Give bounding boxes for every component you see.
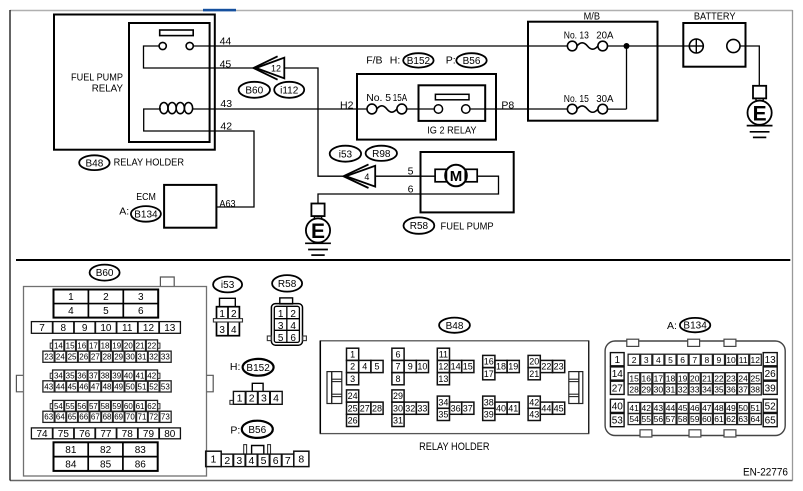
svg-text:39: 39 (765, 383, 777, 394)
svg-text:51: 51 (138, 382, 147, 391)
svg-text:A:: A: (667, 320, 677, 332)
svg-text:R58: R58 (410, 221, 429, 232)
svg-text:37: 37 (738, 384, 748, 394)
svg-text:28: 28 (103, 353, 112, 362)
svg-text:54: 54 (54, 402, 63, 411)
svg-text:44: 44 (56, 382, 65, 391)
svg-text:52: 52 (149, 382, 158, 391)
svg-text:58: 58 (678, 414, 688, 424)
svg-text:30: 30 (393, 403, 403, 413)
svg-text:26: 26 (348, 416, 358, 426)
svg-text:23: 23 (554, 362, 564, 372)
svg-text:14: 14 (612, 369, 624, 380)
svg-text:27: 27 (612, 383, 624, 394)
svg-text:65: 65 (765, 416, 777, 427)
svg-text:57: 57 (666, 414, 676, 424)
svg-text:4: 4 (362, 362, 367, 372)
svg-text:M/B: M/B (584, 10, 600, 22)
svg-text:38: 38 (484, 397, 494, 407)
svg-text:64: 64 (56, 413, 65, 422)
svg-text:59: 59 (690, 414, 700, 424)
svg-text:39: 39 (112, 371, 121, 380)
svg-text:85: 85 (100, 459, 112, 470)
svg-text:35: 35 (714, 384, 724, 394)
svg-text:4: 4 (249, 455, 255, 467)
svg-text:36: 36 (77, 371, 86, 380)
svg-text:53: 53 (612, 416, 624, 427)
svg-text:31: 31 (138, 353, 147, 362)
svg-text:40: 40 (496, 403, 506, 413)
svg-text:25: 25 (348, 403, 358, 413)
svg-text:4: 4 (231, 325, 237, 336)
svg-text:2: 2 (231, 309, 237, 320)
svg-text:11: 11 (439, 350, 448, 360)
svg-text:8: 8 (298, 454, 304, 466)
svg-text:15: 15 (463, 362, 473, 372)
svg-text:8: 8 (395, 374, 400, 384)
svg-text:4: 4 (364, 172, 369, 182)
svg-text:51: 51 (751, 403, 761, 413)
svg-text:E: E (753, 102, 767, 125)
svg-text:22: 22 (541, 362, 551, 372)
svg-text:M: M (450, 168, 463, 185)
svg-text:22: 22 (714, 373, 724, 383)
svg-text:45: 45 (220, 58, 232, 70)
svg-text:48: 48 (714, 403, 724, 413)
svg-text:43: 43 (654, 403, 664, 413)
svg-text:10: 10 (417, 362, 427, 372)
svg-text:47: 47 (91, 382, 100, 391)
svg-text:27: 27 (91, 353, 100, 362)
svg-text:49: 49 (114, 382, 123, 391)
svg-text:3: 3 (138, 292, 144, 303)
svg-text:3: 3 (236, 455, 242, 467)
svg-text:IG 2 RELAY: IG 2 RELAY (427, 124, 476, 136)
svg-text:21: 21 (136, 341, 145, 350)
svg-text:17: 17 (89, 341, 98, 350)
svg-text:2: 2 (290, 309, 296, 320)
svg-text:77: 77 (100, 429, 112, 440)
svg-text:45: 45 (554, 403, 564, 413)
svg-text:ECM: ECM (136, 191, 156, 203)
svg-text:70: 70 (126, 413, 135, 422)
svg-text:46: 46 (79, 382, 88, 391)
svg-text:15: 15 (629, 373, 639, 383)
svg-text:50: 50 (738, 403, 748, 413)
svg-text:13: 13 (438, 374, 448, 384)
svg-text:R98: R98 (372, 149, 391, 160)
svg-text:73: 73 (161, 413, 170, 422)
svg-text:68: 68 (103, 413, 112, 422)
svg-text:64: 64 (751, 414, 761, 424)
svg-text:B60: B60 (245, 85, 263, 96)
svg-text:63: 63 (44, 413, 53, 422)
svg-text:71: 71 (138, 413, 147, 422)
svg-text:45: 45 (678, 403, 688, 413)
svg-text:12: 12 (143, 323, 155, 334)
svg-text:EN-22776: EN-22776 (743, 466, 788, 478)
svg-text:9: 9 (82, 323, 88, 334)
svg-text:7: 7 (395, 362, 400, 372)
svg-text:62: 62 (726, 414, 736, 424)
svg-text:14: 14 (54, 341, 63, 350)
svg-text:37: 37 (89, 371, 98, 380)
svg-text:3: 3 (261, 393, 267, 405)
svg-text:No. 15: No. 15 (564, 93, 589, 105)
svg-text:41: 41 (136, 371, 145, 380)
svg-text:4: 4 (656, 355, 661, 365)
svg-text:37: 37 (463, 403, 473, 413)
svg-text:82: 82 (100, 445, 112, 456)
svg-text:B48: B48 (446, 321, 464, 332)
svg-text:17: 17 (654, 373, 664, 383)
svg-text:86: 86 (135, 459, 147, 470)
svg-text:6: 6 (138, 306, 144, 317)
svg-text:19: 19 (678, 373, 688, 383)
svg-text:9: 9 (717, 355, 722, 365)
svg-text:55: 55 (642, 414, 652, 424)
svg-text:16: 16 (484, 357, 494, 367)
svg-text:F/B: F/B (366, 55, 382, 67)
svg-text:34: 34 (54, 371, 63, 380)
svg-text:74: 74 (36, 429, 48, 440)
svg-text:No. 13: No. 13 (564, 30, 589, 42)
svg-text:40: 40 (124, 371, 133, 380)
svg-text:50: 50 (126, 382, 135, 391)
svg-text:63: 63 (738, 414, 748, 424)
svg-text:41: 41 (508, 403, 518, 413)
svg-text:5: 5 (261, 455, 267, 467)
svg-text:B48: B48 (86, 158, 104, 169)
svg-text:7: 7 (39, 323, 45, 334)
svg-text:12: 12 (271, 64, 281, 74)
svg-text:BATTERY: BATTERY (694, 10, 736, 22)
svg-text:6: 6 (395, 350, 400, 360)
svg-text:5: 5 (374, 362, 379, 372)
svg-text:24: 24 (738, 373, 748, 383)
svg-text:25: 25 (751, 373, 761, 383)
svg-text:2: 2 (224, 455, 230, 467)
svg-text:53: 53 (161, 382, 170, 391)
svg-text:60: 60 (702, 414, 712, 424)
svg-text:43: 43 (529, 410, 539, 420)
svg-text:55: 55 (66, 402, 75, 411)
svg-text:42: 42 (147, 371, 156, 380)
svg-text:38: 38 (101, 371, 110, 380)
svg-text:47: 47 (702, 403, 712, 413)
svg-text:i53: i53 (221, 280, 235, 291)
svg-text:20A: 20A (596, 30, 613, 42)
svg-text:2: 2 (249, 393, 255, 405)
svg-text:13: 13 (765, 355, 777, 366)
svg-text:2: 2 (632, 355, 637, 365)
svg-text:i112: i112 (280, 85, 299, 96)
svg-text:1: 1 (219, 309, 225, 320)
svg-text:H:: H: (230, 361, 241, 373)
svg-text:No. 5: No. 5 (366, 92, 391, 104)
svg-text:5: 5 (668, 355, 673, 365)
svg-text:9: 9 (408, 362, 413, 372)
svg-text:83: 83 (135, 445, 147, 456)
svg-text:33: 33 (417, 403, 427, 413)
svg-text:33: 33 (690, 384, 700, 394)
svg-text:34: 34 (438, 397, 448, 407)
svg-text:22: 22 (147, 341, 156, 350)
svg-text:B60: B60 (96, 268, 114, 279)
svg-text:18: 18 (496, 362, 506, 372)
svg-text:14: 14 (451, 362, 461, 372)
svg-text:62: 62 (147, 402, 156, 411)
svg-text:6: 6 (680, 355, 685, 365)
svg-text:18: 18 (101, 341, 110, 350)
svg-text:54: 54 (629, 414, 639, 424)
svg-text:4: 4 (273, 393, 279, 405)
svg-text:20: 20 (529, 357, 539, 367)
svg-text:28: 28 (629, 384, 639, 394)
svg-text:B56: B56 (463, 56, 481, 67)
svg-text:27: 27 (360, 403, 370, 413)
svg-text:84: 84 (65, 459, 77, 470)
svg-text:24: 24 (348, 391, 358, 401)
svg-text:B56: B56 (248, 425, 266, 436)
svg-text:72: 72 (149, 413, 158, 422)
svg-text:B134: B134 (683, 321, 707, 332)
svg-text:6: 6 (408, 183, 414, 195)
svg-text:31: 31 (393, 416, 403, 426)
svg-text:35: 35 (438, 410, 448, 420)
svg-text:19: 19 (508, 362, 518, 372)
svg-text:46: 46 (690, 403, 700, 413)
svg-text:23: 23 (44, 353, 53, 362)
svg-text:17: 17 (484, 369, 494, 379)
svg-text:42: 42 (220, 121, 232, 133)
svg-text:25: 25 (68, 353, 77, 362)
svg-text:i53: i53 (339, 149, 353, 160)
svg-text:21: 21 (702, 373, 712, 383)
svg-text:16: 16 (642, 373, 652, 383)
svg-text:81: 81 (65, 445, 77, 456)
svg-text:36: 36 (726, 384, 736, 394)
svg-text:2: 2 (350, 362, 355, 372)
svg-text:15A: 15A (393, 92, 407, 104)
svg-text:1: 1 (68, 292, 74, 303)
svg-text:20: 20 (124, 341, 133, 350)
svg-text:40: 40 (612, 401, 624, 412)
svg-text:44: 44 (666, 403, 676, 413)
svg-text:29: 29 (114, 353, 123, 362)
svg-text:57: 57 (89, 402, 98, 411)
svg-text:30: 30 (126, 353, 135, 362)
svg-text:P8: P8 (501, 99, 514, 111)
svg-text:32: 32 (405, 403, 415, 413)
svg-text:H2: H2 (340, 99, 354, 111)
svg-text:B134: B134 (134, 210, 158, 221)
svg-text:1: 1 (278, 309, 284, 320)
svg-text:45: 45 (68, 382, 77, 391)
svg-text:B152: B152 (246, 363, 270, 374)
svg-text:29: 29 (393, 391, 403, 401)
svg-text:49: 49 (726, 403, 736, 413)
svg-text:12: 12 (751, 355, 761, 365)
svg-text:6: 6 (273, 455, 279, 467)
svg-text:39: 39 (484, 410, 494, 420)
svg-text:44: 44 (541, 403, 551, 413)
svg-text:21: 21 (529, 369, 539, 379)
svg-text:67: 67 (91, 413, 100, 422)
svg-text:R58: R58 (278, 279, 297, 290)
svg-text:1: 1 (614, 355, 620, 366)
svg-text:43: 43 (220, 98, 232, 110)
svg-text:60: 60 (124, 402, 133, 411)
svg-text:38: 38 (751, 384, 761, 394)
svg-text:26: 26 (765, 369, 777, 380)
svg-text:FUEL PUMP: FUEL PUMP (441, 221, 494, 233)
svg-text:19: 19 (112, 341, 121, 350)
svg-text:3: 3 (644, 355, 649, 365)
svg-text:80: 80 (164, 429, 176, 440)
svg-text:34: 34 (702, 384, 712, 394)
svg-text:5: 5 (408, 165, 414, 177)
svg-text:8: 8 (61, 323, 67, 334)
svg-text:36: 36 (451, 403, 461, 413)
svg-text:A63: A63 (219, 198, 235, 210)
svg-text:15: 15 (66, 341, 75, 350)
svg-text:11: 11 (739, 355, 748, 365)
svg-text:3: 3 (350, 374, 355, 384)
svg-text:52: 52 (765, 401, 777, 412)
svg-text:6: 6 (290, 333, 296, 344)
svg-text:76: 76 (79, 429, 91, 440)
svg-text:10: 10 (726, 355, 736, 365)
svg-text:56: 56 (654, 414, 664, 424)
svg-text:H:: H: (390, 55, 401, 67)
svg-text:3: 3 (219, 325, 225, 336)
svg-text:24: 24 (56, 353, 65, 362)
svg-text:28: 28 (372, 403, 382, 413)
svg-text:3: 3 (278, 321, 284, 332)
svg-text:43: 43 (44, 382, 53, 391)
svg-text:65: 65 (68, 413, 77, 422)
svg-text:E: E (311, 220, 325, 243)
svg-text:RELAY HOLDER: RELAY HOLDER (114, 157, 185, 169)
svg-text:1: 1 (211, 454, 217, 466)
svg-text:7: 7 (692, 355, 697, 365)
svg-text:78: 78 (122, 429, 134, 440)
svg-text:75: 75 (58, 429, 70, 440)
svg-text:11: 11 (122, 323, 133, 334)
svg-text:RELAY HOLDER: RELAY HOLDER (419, 441, 490, 453)
svg-text:44: 44 (220, 36, 232, 48)
svg-text:7: 7 (285, 455, 291, 467)
svg-text:69: 69 (114, 413, 123, 422)
svg-text:18: 18 (666, 373, 676, 383)
svg-text:4: 4 (290, 321, 296, 332)
svg-text:23: 23 (726, 373, 736, 383)
svg-text:61: 61 (714, 414, 724, 424)
svg-text:B152: B152 (407, 56, 431, 67)
svg-text:30: 30 (654, 384, 664, 394)
svg-text:66: 66 (79, 413, 88, 422)
svg-text:30A: 30A (596, 93, 613, 105)
svg-text:A:: A: (119, 205, 129, 217)
svg-text:29: 29 (642, 384, 652, 394)
svg-text:58: 58 (101, 402, 110, 411)
svg-text:31: 31 (666, 384, 676, 394)
svg-text:35: 35 (66, 371, 75, 380)
svg-text:5: 5 (103, 306, 109, 317)
svg-text:42: 42 (529, 397, 539, 407)
svg-text:4: 4 (68, 306, 74, 317)
svg-text:20: 20 (690, 373, 700, 383)
svg-text:48: 48 (103, 382, 112, 391)
svg-text:56: 56 (77, 402, 86, 411)
svg-text:P:: P: (230, 425, 240, 437)
svg-text:8: 8 (704, 355, 709, 365)
svg-text:33: 33 (161, 353, 170, 362)
svg-text:RELAY: RELAY (92, 82, 123, 94)
svg-text:79: 79 (143, 429, 155, 440)
svg-text:16: 16 (77, 341, 86, 350)
svg-text:61: 61 (136, 402, 145, 411)
svg-text:10: 10 (100, 323, 112, 334)
svg-text:32: 32 (149, 353, 158, 362)
svg-text:41: 41 (629, 403, 639, 413)
svg-text:13: 13 (164, 323, 176, 334)
svg-text:1: 1 (350, 350, 355, 360)
svg-text:32: 32 (678, 384, 688, 394)
svg-text:42: 42 (642, 403, 652, 413)
svg-text:P:: P: (446, 55, 456, 67)
svg-text:5: 5 (278, 333, 284, 344)
svg-text:2: 2 (103, 292, 109, 303)
svg-text:26: 26 (79, 353, 88, 362)
svg-text:12: 12 (438, 362, 448, 372)
svg-text:1: 1 (237, 393, 243, 405)
svg-text:59: 59 (112, 402, 121, 411)
